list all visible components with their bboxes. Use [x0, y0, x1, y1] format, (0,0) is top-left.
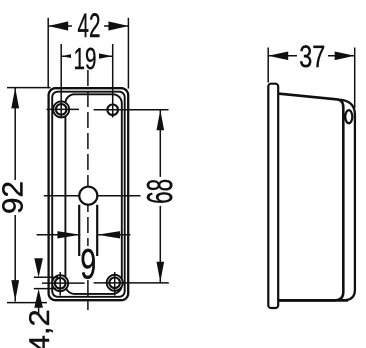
vertical cross bottom-right hole: [114, 272, 116, 296]
svg-text:37: 37: [299, 39, 325, 74]
front view inner contour: [52, 92, 125, 297]
hole top-right: [107, 105, 118, 116]
svg-text:19: 19: [74, 42, 97, 76]
dim 42 arrow left: [48, 21, 68, 30]
hole bottom-left: [55, 278, 66, 289]
dim 92 arrow down: [11, 280, 19, 301]
front view outer contour: [49, 88, 129, 300]
dim 92 arrow up: [11, 88, 19, 109]
svg-text:9: 9: [80, 241, 96, 288]
center circle: [79, 187, 97, 205]
boss top-left: [53, 101, 69, 117]
dim 37 extension right: [354, 48, 356, 109]
dim 4,2 up arrow: [34, 289, 43, 308]
text 37: [297, 39, 328, 74]
dim 92 top extension: [7, 87, 51, 89]
side view screw hole ellipse: [345, 110, 352, 123]
circle horizontal centerline left: [44, 195, 79, 197]
svg-text:92: 92: [0, 181, 30, 214]
dim 37 arrow right: [335, 52, 355, 61]
side view body top edge and inner right wall: [278, 94, 343, 301]
19 extension line left: [60, 44, 62, 118]
vertical cross bottom-left hole: [59, 272, 61, 296]
dim 4,2 down arrow: [34, 258, 43, 277]
dim 9 arrow right-pointing: [57, 231, 80, 238]
front view recess outline: [65, 94, 121, 294]
dim 68 arrow down: [157, 262, 165, 283]
dim 42 arrow right: [108, 21, 128, 30]
dim 19 arrow right: [98, 53, 113, 59]
dim 9 line right with arrow: [97, 234, 130, 236]
text 19: [71, 42, 99, 76]
side view flange bar: [268, 84, 278, 308]
dim 4,2 up arrow stem: [38, 308, 40, 314]
dim 37 line: [268, 55, 355, 57]
dim 4,2 bottom tangent line: [34, 288, 56, 290]
hole top-left: [56, 104, 67, 115]
dim 9 line left with arrow: [37, 234, 81, 236]
hole bottom-right: [109, 278, 120, 289]
side view outer rear flap: [340, 100, 355, 301]
svg-text:68: 68: [139, 179, 180, 204]
slot line left: [78, 205, 80, 256]
dim 37 arrow left: [268, 52, 288, 61]
dim 42 line: [48, 25, 128, 27]
boss bottom-left: [52, 275, 68, 291]
dim 42 extension right: [127, 18, 129, 89]
boss bottom-right: [107, 275, 123, 291]
centerline cross top-left hole: [47, 108, 80, 110]
dim 19 line: [61, 55, 112, 57]
dim 68 arrow up: [157, 110, 165, 131]
text 92 rotated: [0, 180, 30, 215]
svg-text:42: 42: [78, 7, 101, 45]
text 68 rotated: [139, 177, 180, 206]
dim 42 extension left: [47, 18, 49, 89]
circle horizontal centerline right: [98, 195, 141, 197]
centerline cross bottom-left hole: [42, 282, 85, 284]
19 extension line right: [112, 44, 114, 118]
dim 92 line: [14, 88, 16, 302]
text 42: [72, 7, 104, 45]
dim 9 arrow left-pointing: [97, 231, 120, 238]
dim 37 extension left: [267, 48, 269, 83]
centerline cross bottom-right hole + 68 bottom extension: [94, 282, 169, 284]
svg-text:4,2: 4,2: [24, 309, 56, 348]
text 4,2 rotated: [24, 309, 56, 348]
vertical dashed centerline: [87, 70, 89, 310]
dim 19 arrow left: [61, 53, 75, 59]
slot line right: [96, 205, 98, 256]
dim 4,2 top tangent line: [34, 276, 58, 278]
centerline cross top-right hole + 68 top extension: [94, 109, 169, 111]
dim 92 bottom extension: [7, 302, 47, 304]
text 9: [80, 241, 96, 288]
side view bottom edge: [278, 299, 348, 302]
dim 68 line: [159, 110, 161, 283]
